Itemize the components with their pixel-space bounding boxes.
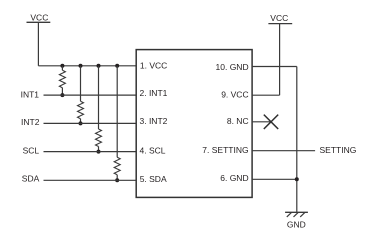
node SDA label (22, 173, 40, 183)
wire SDA to pin 5 (44, 179, 137, 181)
wire: GND net vertical (296, 67, 298, 212)
wire SCL to pin 4 (44, 151, 137, 153)
IC U1 body (136, 50, 252, 198)
wire: VCC right vertical drop to pin 9 row (279, 24, 281, 96)
svg-text:7. SETTING: 7. SETTING (202, 145, 248, 155)
junction dot rail / R3 (97, 64, 101, 68)
junction dot R4 / SDA (115, 178, 119, 182)
wire: pin 10 GND horizontal (252, 66, 297, 68)
node SCL label (23, 146, 40, 156)
svg-text:VCC: VCC (270, 13, 288, 23)
wire: VCC left vertical drop (37, 22, 39, 66)
resistor R3 (pull-up SCL) (96, 66, 102, 152)
power VCC (right) bar symbol (268, 23, 292, 25)
no-connect X on pin 8 (252, 115, 278, 129)
node SETTING label (320, 145, 357, 155)
power VCC (left) label (30, 13, 48, 23)
wire: VCC rail to pin 1 (38, 65, 136, 67)
junction dot rail / R4 (115, 64, 119, 68)
pin 6 label: 6. GND (220, 173, 248, 183)
svg-text:VCC: VCC (30, 13, 48, 23)
svg-text:6. GND: 6. GND (220, 173, 248, 183)
power VCC (right) label (270, 13, 288, 23)
pin 10 label: 10. GND (216, 62, 249, 72)
pin 9 label: 9. VCC (221, 90, 248, 100)
junction dot rail / R2 (79, 64, 83, 68)
wire: pin 9 to VCC (252, 94, 280, 96)
wire INT2 to pin 3 (44, 122, 137, 124)
pin 1 label: 1. VCC (140, 61, 167, 71)
svg-text:INT2: INT2 (21, 117, 40, 127)
pin 2 label: 2. INT1 (140, 88, 168, 98)
power VCC (left) bar symbol (27, 21, 51, 23)
svg-text:3. INT2: 3. INT2 (140, 116, 168, 126)
pin 7 label: 7. SETTING (202, 145, 248, 155)
svg-text:9. VCC: 9. VCC (221, 90, 248, 100)
junction dot pin6 / GND net (295, 177, 299, 181)
svg-text:GND: GND (287, 220, 306, 230)
resistor R1 (pull-up INT1) (59, 66, 65, 95)
node INT1 label (21, 89, 40, 99)
junction dot rail / R1 (60, 64, 64, 68)
svg-text:5. SDA: 5. SDA (140, 174, 167, 184)
svg-text:SDA: SDA (22, 173, 40, 183)
pin 8 label: 8. NC (227, 116, 249, 126)
svg-text:1. VCC: 1. VCC (140, 61, 167, 71)
pin 3 label: 3. INT2 (140, 116, 168, 126)
ground GND label (287, 220, 306, 230)
junction dot R1 / INT1 (60, 93, 64, 97)
junction dot R3 / SCL (97, 150, 101, 154)
resistor R2 (pull-up INT2) (78, 66, 84, 124)
svg-text:INT1: INT1 (21, 89, 40, 99)
wire: pin 6 GND horizontal (252, 178, 297, 180)
svg-text:SCL: SCL (23, 146, 40, 156)
junction dot R2 / INT2 (79, 121, 83, 125)
svg-text:2. INT1: 2. INT1 (140, 88, 168, 98)
resistor R4 (pull-up SDA) (114, 66, 120, 181)
svg-text:8. NC: 8. NC (227, 116, 249, 126)
svg-text:4. SCL: 4. SCL (140, 146, 166, 156)
svg-text:SETTING: SETTING (320, 145, 357, 155)
node INT2 label (21, 117, 40, 127)
pin 4 label: 4. SCL (140, 146, 166, 156)
svg-text:10. GND: 10. GND (216, 62, 249, 72)
ground symbol (285, 212, 308, 217)
wire: pin 7 SETTING horizontal (252, 150, 315, 152)
pin 5 label: 5. SDA (140, 174, 167, 184)
wire INT1 to pin 2 (44, 94, 137, 96)
